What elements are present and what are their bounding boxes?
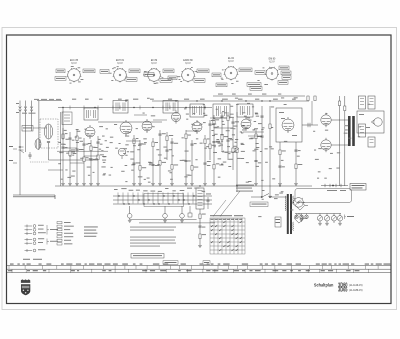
gedruckte schaltung box <box>131 254 164 259</box>
speaker terminal marks <box>359 114 370 128</box>
socket voltage box 21 <box>247 83 261 87</box>
diagonal dial cord line <box>220 191 240 217</box>
riser cap b <box>260 136 263 137</box>
oscillator coil pack <box>190 104 204 117</box>
socket voltage box 16 <box>255 71 265 75</box>
mid band texture <box>66 140 258 167</box>
wire antenna to coil <box>33 127 47 129</box>
left vertical rail <box>60 112 62 186</box>
socket voltage box 7 <box>144 73 154 77</box>
top distribution bus <box>152 100 309 102</box>
bandswitch bus b <box>113 199 212 201</box>
rectifier bridge lower <box>294 214 307 224</box>
IF transformer T4 <box>213 104 230 118</box>
wire detector riser b <box>269 106 271 196</box>
table caption above <box>23 258 42 261</box>
electrolytic C51 <box>368 96 375 109</box>
AM coil assembly left <box>35 139 41 149</box>
IF stage chain 11 <box>212 115 220 183</box>
AM filter box <box>62 112 72 125</box>
link wire g3 <box>126 140 140 142</box>
tube EABC80 triode <box>192 120 202 134</box>
electrolytic C50 <box>359 96 366 109</box>
link wire g8 <box>63 147 77 149</box>
dial lamp bus <box>295 213 341 215</box>
svg-text:6,3 V: 6,3 V <box>185 63 191 65</box>
IF stage chain 4 <box>158 130 166 183</box>
electrolytic can <box>196 188 204 209</box>
IF stage chain 3 <box>151 138 159 183</box>
link wire g4 <box>186 130 197 132</box>
wire mixer feed <box>49 159 99 161</box>
fill specks pass <box>101 136 340 183</box>
socket voltage box 5 <box>129 69 140 73</box>
EL95 cathode chain <box>278 142 285 183</box>
tuning capacitor link <box>48 148 50 160</box>
border frame <box>7 35 392 304</box>
IF stage chain 6 <box>170 138 178 183</box>
coil tap list <box>57 222 74 246</box>
IF stage chain 14 <box>231 118 239 170</box>
power text lines <box>236 185 254 192</box>
switch table rows <box>210 222 245 250</box>
svg-text:(11-1189-15): (11-1189-15) <box>349 288 363 292</box>
bandswitch upper text row <box>114 188 205 192</box>
socket voltage box 13 <box>212 73 221 77</box>
table cell ticks row 2 <box>12 269 369 272</box>
IF stage chain 13 <box>226 112 234 160</box>
scale lamp 2 <box>324 214 329 224</box>
coupling caps to output <box>302 123 318 127</box>
RF divider chain 5 <box>89 140 96 183</box>
tube ECC85 symbol <box>85 125 95 139</box>
HT riser b <box>344 96 346 186</box>
bandswitch bus c <box>113 203 212 205</box>
legend group bracket 1 <box>47 225 58 235</box>
FM tuner dashed enclosure <box>40 119 58 148</box>
output tube EL84 lower <box>321 138 331 152</box>
scale lamp 3 <box>331 214 336 224</box>
parts list table rules <box>7 266 392 273</box>
socket pin labels <box>70 66 273 85</box>
transformer secondary winding upper <box>293 196 294 204</box>
wire left riser <box>62 108 64 141</box>
potentiometer P3 <box>180 206 185 220</box>
RF divider chain 3 <box>75 130 82 183</box>
FM IF transformer <box>84 108 98 120</box>
switch table header band <box>211 218 243 221</box>
IF stage chain 7 <box>184 130 191 183</box>
riser res a <box>269 124 271 129</box>
IF transformer T2 <box>113 101 128 114</box>
mains label box <box>250 202 268 207</box>
left link wire h2 <box>70 162 84 164</box>
AF coupling wire <box>311 101 313 125</box>
part number box left <box>163 261 178 265</box>
service notes paragraph B <box>130 237 176 247</box>
aerial lead 2 <box>24 101 27 153</box>
mains switch <box>251 194 287 198</box>
socket voltage box 18 <box>281 71 291 75</box>
potentiometer P1 <box>127 206 132 220</box>
center cluster specks <box>114 97 298 180</box>
electrolytic C52 <box>359 124 366 137</box>
aerial top labels <box>16 99 61 113</box>
tube socket base V3 EF 89 <box>147 68 162 82</box>
svg-text:ECH 81: ECH 81 <box>116 60 125 62</box>
wire detector riser a <box>261 106 263 196</box>
svg-text:EM 80: EM 80 <box>269 59 276 61</box>
socket voltage box 11 <box>197 69 209 73</box>
left mid specks <box>58 126 108 160</box>
bandswitch outline box <box>144 194 184 207</box>
voltage notes block <box>84 227 98 237</box>
socket voltage box 3 <box>83 69 95 73</box>
svg-text:6,3 V: 6,3 V <box>228 61 234 63</box>
svg-text:6,3 V: 6,3 V <box>151 63 157 65</box>
OT primary bottom lead <box>331 144 348 146</box>
lamp bracket label <box>345 215 355 220</box>
rectifier bridge upper <box>295 201 308 211</box>
ratio detector transformer <box>237 104 253 117</box>
svg-text:ECC 85: ECC 85 <box>70 60 79 62</box>
IF transformer T3 <box>163 101 178 114</box>
IF stage chain 12 <box>220 112 228 150</box>
EL95 internal labels <box>279 112 297 136</box>
svg-text:EF 89: EF 89 <box>151 60 158 62</box>
link wire g1 <box>134 114 147 116</box>
det link wire a <box>243 131 264 133</box>
IF stage chain 15 <box>254 130 262 183</box>
socket voltage box 1 <box>56 69 65 73</box>
RF divider chain 4 <box>82 138 88 183</box>
link wire g7 <box>222 151 237 153</box>
top bus labels <box>72 98 296 101</box>
heater bus labels <box>218 93 281 96</box>
loudspeaker <box>371 118 382 126</box>
svg-text:(11-1129-15): (11-1129-15) <box>349 283 363 287</box>
title text Schaltplan <box>314 282 363 294</box>
part number box right <box>203 261 210 265</box>
scale lamp 1 <box>317 214 322 224</box>
tube socket base V1 ECC 85 <box>67 68 82 82</box>
socket voltage box 20 <box>278 81 288 85</box>
link wire g6 <box>214 127 233 129</box>
legend group bracket 2 <box>47 239 58 245</box>
pilot lamp 2 <box>300 214 304 219</box>
service notes paragraph A <box>130 227 176 231</box>
AVC line <box>57 150 108 152</box>
switch table marks <box>211 221 242 251</box>
svg-text:6,3 V: 6,3 V <box>269 62 275 64</box>
can side parts <box>206 194 211 210</box>
HT rail <box>58 107 212 109</box>
volume potentiometer <box>235 112 239 192</box>
electrolytic C53 <box>368 137 375 147</box>
RF divider chain 2 <box>68 132 75 183</box>
potentiometer P2 <box>163 206 168 220</box>
socket voltage box 9 <box>160 79 172 83</box>
tube socket base V6 EM 80 <box>265 67 279 81</box>
legend socket row 3 <box>25 232 46 235</box>
tube EF89 symbol <box>142 119 152 133</box>
socket voltage box 10 <box>168 76 177 80</box>
IF stage chain 1 <box>132 135 140 183</box>
switch table frame <box>210 218 245 254</box>
tone contact row <box>321 184 348 191</box>
magic eye enclosure <box>295 189 352 203</box>
link wire g5 <box>210 117 222 119</box>
svg-text:6,3 V: 6,3 V <box>71 63 77 65</box>
aerial lead 3 <box>30 101 33 132</box>
triode section ECH81 <box>118 148 126 159</box>
OT primary top lead <box>331 119 348 121</box>
AM trimmer pair <box>28 152 31 159</box>
IF stage chain 5 <box>165 132 173 160</box>
RF divider chain 1 <box>61 128 67 183</box>
AM aerial bus <box>37 100 62 102</box>
socket voltage box 15 <box>216 83 227 87</box>
detector cluster specks <box>115 112 299 165</box>
magic eye socket <box>292 198 305 208</box>
svg-text:EABC 80: EABC 80 <box>183 59 193 62</box>
aerial switch contacts <box>19 146 25 153</box>
tube socket base V2 ECH 81 <box>113 68 128 82</box>
output tube EL84 upper <box>321 113 331 127</box>
IF stage chain 2 <box>138 140 146 183</box>
socket voltage box 19 <box>282 76 291 80</box>
FM antenna label box <box>22 126 33 132</box>
detector extra specks <box>214 111 264 148</box>
bandswitch bus a <box>113 195 212 197</box>
speaker enclosure <box>357 111 384 133</box>
legend socket row 2 <box>25 228 44 231</box>
pot chassis line b <box>139 222 215 224</box>
aerial lead 4 <box>38 101 40 151</box>
RF divider chain 6 <box>96 136 104 183</box>
svg-text:Schaltplan: Schaltplan <box>314 282 334 287</box>
legend socket row 5 <box>25 242 44 245</box>
left link wire h1 <box>48 169 63 171</box>
parts table row 2 entries <box>8 269 359 272</box>
EL95 grid chain <box>294 142 302 183</box>
FM tuner trimmer <box>47 142 50 149</box>
socket voltage box 22 <box>250 87 262 91</box>
ground lamp row a <box>300 219 304 221</box>
left frame tick b <box>13 162 17 164</box>
FM tuner coil <box>44 124 52 139</box>
IF stage chain 8 <box>190 140 198 183</box>
switch table columns <box>214 218 242 254</box>
right section specks <box>313 104 370 160</box>
left frame tick a <box>13 148 17 150</box>
AF stage enclosure <box>276 108 302 142</box>
socket voltage box 17 <box>279 66 289 70</box>
svg-text:3D65: 3D65 <box>338 287 348 294</box>
left frame tag a <box>9 146 13 161</box>
label FM-Antenne <box>22 112 36 115</box>
power transformer core <box>287 194 292 234</box>
IF stage chain 10 <box>208 120 216 160</box>
left cluster specks <box>58 129 106 180</box>
switch contact dots <box>118 195 194 204</box>
tuning gang dashed link <box>30 161 49 163</box>
pilot lamp 3 <box>305 214 309 219</box>
link wire g9 <box>84 155 98 157</box>
socket voltage box 14 <box>239 68 252 72</box>
socket voltage box 4 <box>100 70 109 74</box>
output transformer core <box>348 116 355 146</box>
heater dropper resistor a <box>307 96 309 101</box>
diagonal dial cord line b <box>213 200 226 217</box>
parts table row 1 entries <box>10 263 390 266</box>
socket voltage box 12 <box>194 79 205 83</box>
HT riser a <box>338 96 340 186</box>
svg-text:6,3 V: 6,3 V <box>117 63 123 65</box>
legend socket row 4 <box>25 238 45 241</box>
legend socket row 6 <box>25 249 46 252</box>
legend socket row 1 <box>25 225 44 228</box>
svg-text:EL 84: EL 84 <box>228 58 235 60</box>
IF stage chain 9 <box>203 135 210 183</box>
tube socket base V4 EABC 80 <box>181 68 196 82</box>
voltage selector <box>275 217 281 227</box>
pickup jack <box>188 206 192 217</box>
link wire g2 <box>153 119 167 121</box>
socket voltage box 2 <box>55 77 66 81</box>
tube socket base V5 EL 84 <box>224 66 239 80</box>
tube EL95 symbol <box>282 117 294 133</box>
bandswitch contact fingers <box>118 193 193 204</box>
tube ECH81 symbol <box>120 120 132 136</box>
riser cap a <box>260 116 263 117</box>
AGC rail <box>98 121 162 123</box>
switch table caption <box>210 214 243 217</box>
transformer primary winding <box>285 196 286 211</box>
pilot lamp 1 <box>295 214 299 219</box>
junction dots <box>62 100 280 186</box>
transformer secondary winding lower <box>293 222 294 230</box>
heater dropper resistor b <box>314 96 316 101</box>
heater bus <box>213 95 305 97</box>
socket voltage box 8 <box>163 69 174 73</box>
tube EF85 symbol <box>171 110 180 123</box>
chassis double line <box>13 195 55 199</box>
HT rail taps <box>70 106 205 110</box>
scale lamp 4 <box>337 214 342 224</box>
chassis rail <box>55 185 312 187</box>
power section specks <box>258 190 303 219</box>
pot chassis line a <box>130 219 197 221</box>
socket voltage box 6 <box>126 78 137 82</box>
PSU filter chain <box>198 209 206 245</box>
table cell ticks row 1 <box>9 266 378 270</box>
Philips shield logo <box>21 279 30 295</box>
aerial lead 1 <box>19 101 22 196</box>
netztrafo label box <box>350 184 366 191</box>
tube EABC80 diodes <box>241 117 251 131</box>
det link wire b <box>248 135 262 137</box>
